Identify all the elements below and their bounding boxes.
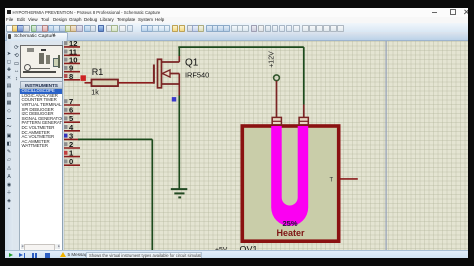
heater value label 25%: [282, 219, 297, 228]
wire Q1 drain to top rail: [178, 47, 180, 56]
horizontal scrollbar: [21, 244, 60, 249]
svg-text:1k: 1k: [91, 89, 99, 96]
list box: [19, 88, 62, 251]
connector pin 7: [63, 97, 80, 106]
preview window: [20, 45, 63, 79]
node label +5V: [215, 246, 228, 253]
tab bar: [5, 32, 468, 42]
connector pin 1: [63, 148, 80, 157]
temperature pin T: [329, 177, 357, 183]
wire pin8 to R1: [84, 81, 91, 83]
wire rail down to heater right post: [302, 47, 304, 118]
transistor Q1 IRF540: [153, 55, 208, 95]
wire pin3 horizontal: [78, 138, 152, 140]
svg-text:Heater: Heater: [276, 227, 305, 237]
status bar: [5, 250, 468, 259]
svg-text:0: 0: [69, 157, 73, 166]
ground: [170, 189, 187, 197]
main toolbar: [5, 23, 468, 34]
sheet edge line: [385, 41, 387, 251]
connector pin 2: [63, 140, 80, 149]
part reference OV1: [239, 244, 257, 254]
heater right terminal post: [299, 117, 308, 124]
svg-text:Q1: Q1: [185, 57, 199, 68]
connector pin 11: [63, 47, 80, 56]
wire Q1 source to ground: [178, 95, 180, 188]
heater element tube: [271, 126, 308, 226]
connector pin 6: [63, 105, 80, 114]
menu bar: [5, 17, 468, 23]
connector pin 4: [63, 122, 80, 131]
title bar: [5, 8, 468, 17]
INSTRUMENTS header: [20, 81, 63, 90]
junction node at pin 8: [80, 75, 85, 81]
svg-text:8: 8: [69, 71, 73, 80]
selection marker at Q1 source: [171, 97, 175, 101]
wire R1 to Q1 gate: [118, 81, 154, 83]
connector pin 12: [63, 38, 80, 47]
connector pin 3: [63, 131, 80, 140]
editor area: [64, 41, 469, 251]
oven OV1 heater body: [242, 126, 338, 241]
connector pin 8: [63, 71, 80, 80]
main area background: [5, 41, 468, 251]
connector pin 10: [63, 55, 80, 64]
svg-text:+12V: +12V: [268, 50, 275, 67]
wire pin3 net down: [151, 139, 153, 250]
svg-text:IRF540: IRF540: [185, 70, 209, 79]
resistor R1: [91, 67, 118, 97]
heater name label: [276, 227, 305, 237]
svg-text:R1: R1: [91, 67, 103, 77]
power terminal +12V: [268, 50, 279, 117]
connector pin 9: [63, 63, 80, 72]
heater left terminal post: [272, 117, 281, 124]
svg-text:25%: 25%: [282, 219, 297, 228]
wire top rail: [178, 46, 303, 48]
left panel: [13, 41, 63, 251]
left mode toolbar: [5, 41, 13, 251]
svg-text:T: T: [329, 177, 333, 183]
connector pin 5: [63, 114, 80, 123]
connector pin 0: [63, 157, 80, 166]
